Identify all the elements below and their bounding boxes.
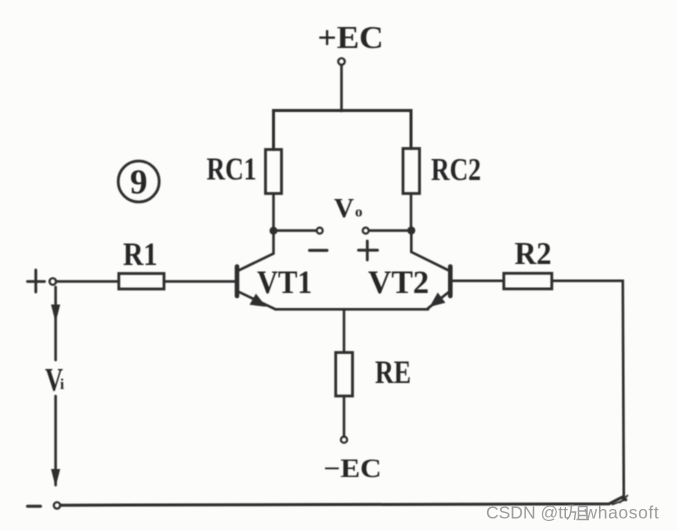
node Vo minus terminal xyxy=(317,228,323,234)
svg-text:−EC: −EC xyxy=(324,454,382,483)
svg-text:i: i xyxy=(60,377,64,393)
svg-text:whaosoft: whaosoft xyxy=(584,503,660,523)
wire base VT2 to R2 xyxy=(452,279,504,282)
label plus polarity of Vo xyxy=(359,241,378,260)
wire RC2 to collector node xyxy=(410,194,413,232)
resistor RC2 xyxy=(403,149,420,194)
svg-text:o: o xyxy=(355,205,363,221)
wire RE to -EC terminal xyxy=(343,396,346,437)
node collector VT2 xyxy=(407,227,415,235)
svg-text:RC2: RC2 xyxy=(431,151,481,187)
wire input + terminal to R1 xyxy=(56,280,119,283)
svg-text:VT2: VT2 xyxy=(368,265,429,301)
svg-text:RE: RE xyxy=(375,355,411,391)
wire Vi arrow upper segment xyxy=(51,287,60,360)
label plus input polarity xyxy=(28,270,45,292)
node input top terminal xyxy=(50,278,57,285)
resistor R2 xyxy=(504,273,552,289)
svg-text:+EC: +EC xyxy=(318,19,384,55)
wire node to Vo plus terminal xyxy=(369,229,411,232)
svg-text:RC1: RC1 xyxy=(207,151,257,187)
wire bottom return xyxy=(60,497,625,505)
label Vi xyxy=(45,363,64,399)
node input bottom terminal xyxy=(54,502,60,508)
resistor R1 xyxy=(119,274,164,290)
label Vo xyxy=(334,193,363,223)
svg-text:V: V xyxy=(334,193,355,223)
svg-text:9: 9 xyxy=(130,163,148,202)
resistor RC1 xyxy=(266,150,282,194)
node Vo plus terminal xyxy=(363,228,369,234)
resistor RE xyxy=(336,353,353,397)
label (9) figure number xyxy=(118,161,159,202)
wire corner scribble xyxy=(613,496,628,505)
watermark CSDN xyxy=(486,503,659,523)
wire RC1 to collector node xyxy=(272,194,275,232)
label minus polarity of Vo xyxy=(310,249,328,252)
wire +EC feed xyxy=(340,65,343,111)
label minus input polarity xyxy=(28,505,41,508)
transistor VT2 xyxy=(411,231,450,308)
wire emitter rail xyxy=(276,308,429,311)
wire emitter tap to RE xyxy=(343,309,346,352)
wire R1 to base VT1 xyxy=(164,280,235,283)
power -EC terminal xyxy=(341,437,347,443)
node collector VT1 xyxy=(270,227,278,235)
wire Vi arrow lower segment xyxy=(51,396,60,487)
power +EC terminal xyxy=(338,58,345,65)
transistor VT1 xyxy=(237,231,276,309)
wire R2 to bottom return xyxy=(552,281,624,498)
wire node to Vo minus terminal xyxy=(274,229,317,232)
svg-text:VT1: VT1 xyxy=(257,265,312,301)
svg-text:R1: R1 xyxy=(123,237,158,273)
wire top bus xyxy=(274,111,412,150)
svg-text:CSDN @tt: CSDN @tt xyxy=(486,503,568,523)
svg-text:R2: R2 xyxy=(515,235,552,271)
